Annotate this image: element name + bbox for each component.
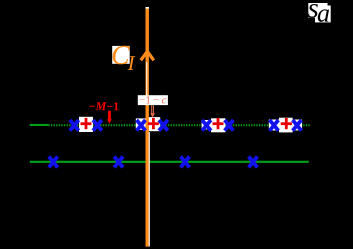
svg-text:−M−1: −M−1 <box>89 99 119 113</box>
svg-text:−1 − c: −1 − c <box>139 94 166 106</box>
svg-text:I: I <box>127 51 136 75</box>
svg-text:a: a <box>317 0 330 28</box>
